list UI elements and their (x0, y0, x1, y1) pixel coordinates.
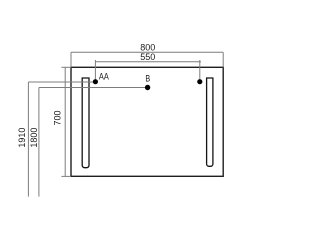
svg-text:B: B (145, 73, 150, 83)
svg-text:1800: 1800 (29, 128, 39, 148)
svg-text:550: 550 (140, 52, 155, 62)
svg-text:1910: 1910 (17, 128, 27, 148)
svg-text:700: 700 (53, 110, 63, 125)
svg-text:AA: AA (99, 72, 109, 82)
